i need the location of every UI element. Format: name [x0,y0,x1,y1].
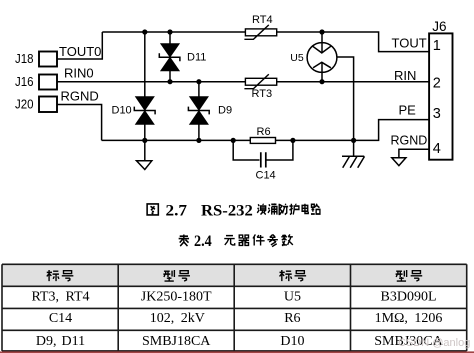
svg-text:JK250-180T: JK250-180T [141,289,212,304]
TVS diode D11 [159,44,180,72]
wire U5 top vertical [321,32,323,53]
svg-text:D11: D11 [187,52,206,64]
connector J18 box [39,52,57,67]
thermistor RT4 [244,25,276,39]
svg-text:RIN0: RIN0 [64,66,94,81]
svg-text:RS-232: RS-232 [201,203,253,220]
junction ground rail / R6-C14 right [290,138,295,143]
svg-text:2.7: 2.7 [166,203,188,220]
svg-text:D10: D10 [112,104,132,116]
caption table 2.4 [179,233,293,250]
junction RIN line / D11 bottom [167,79,172,84]
connector J20 box [39,97,57,113]
grid [2,264,467,351]
wire TOUT0 lead from J18 to top rail [57,32,102,59]
svg-text:U5: U5 [284,289,301,304]
svg-text:3: 3 [433,106,441,122]
bottom red strip [0,351,474,353]
ground (earth/chassis) [342,140,365,167]
ground (signal) at J6 pin4 [392,158,406,166]
header fill [2,264,467,286]
junction TOUT rail / D10 branch [142,29,147,34]
svg-text:2: 2 [433,76,441,92]
wire D11 branch vertical [169,32,171,82]
resistor R6 [250,138,275,144]
svg-text:J6: J6 [432,19,446,34]
junction RIN line / D9 top [196,79,201,84]
svg-text:CSDN @anlog: CSDN @anlog [398,337,470,349]
connector J16 box [39,75,57,90]
junction TOUT rail / D11 branch [167,29,172,34]
capacitor C14 plates [261,152,266,167]
svg-text:J20: J20 [15,97,34,112]
wire U5 bottom vertical [321,62,323,81]
wire D10 branch vertical [144,32,146,140]
svg-text:RT3,RT4: RT3,RT4 [31,289,89,304]
junction ground rail / D9 bottom [196,138,201,143]
thermistor RT3 [244,74,276,88]
wire bottom rail [102,120,430,141]
svg-text:R6: R6 [284,311,300,326]
svg-text:R6: R6 [257,126,271,138]
svg-text:1MΩ,1206: 1MΩ,1206 [375,311,443,326]
wire C14 branch [233,140,293,160]
junction TOUT rail / U5 top [319,29,324,34]
svg-text:RT3: RT3 [252,88,273,100]
svg-text:TOUT: TOUT [392,36,427,51]
svg-text:B3D090L: B3D090L [381,289,437,304]
junction RIN line / U5 bottom [319,79,324,84]
svg-text:C14: C14 [256,169,276,181]
svg-text:U5: U5 [290,52,304,64]
svg-text:D9,D11: D9,D11 [36,334,85,349]
svg-text:1: 1 [433,38,441,54]
svg-text:C14: C14 [49,311,72,326]
svg-text:PE: PE [399,103,417,118]
wire D9 branch vertical [198,82,200,141]
schematic text labels [15,14,447,181]
svg-text:102,2kV: 102,2kV [150,311,205,326]
wire J6 pin4 lead [399,149,429,158]
svg-text:4: 4 [433,141,441,157]
svg-text:TOUT0: TOUT0 [59,44,101,59]
svg-text:RIN: RIN [394,68,416,83]
junction ground rail / D10 bottom [142,138,147,143]
svg-text:RGND: RGND [391,134,428,148]
header texts [47,270,422,281]
svg-text:J18: J18 [15,51,34,66]
svg-text:RGND: RGND [61,88,99,103]
svg-text:RT4: RT4 [252,14,273,26]
cell texts [31,289,443,349]
connector J6 body [429,33,452,159]
junction ground rail / R6-C14 left [231,138,236,143]
svg-text:2.4: 2.4 [194,233,212,250]
caption fig 2.7 [147,203,320,220]
wire RGND lead from J20 [57,105,102,141]
svg-text:D10: D10 [280,334,304,349]
wire U5 right electrode to ground rail [337,57,354,140]
svg-text:J16: J16 [15,74,34,89]
gas discharge tube U5 [307,43,337,73]
TVS diode D10 [134,97,155,125]
junction ground rail / U5 electrode & earth [351,138,356,143]
wire RIN line [57,81,429,83]
TVS diode D9 [188,97,209,125]
wire top rail TOUT net [102,32,429,52]
ground (signal) under D10 rail [137,140,152,169]
svg-text:D9: D9 [218,104,232,116]
svg-text:SMBJ18CA: SMBJ18CA [142,334,211,349]
